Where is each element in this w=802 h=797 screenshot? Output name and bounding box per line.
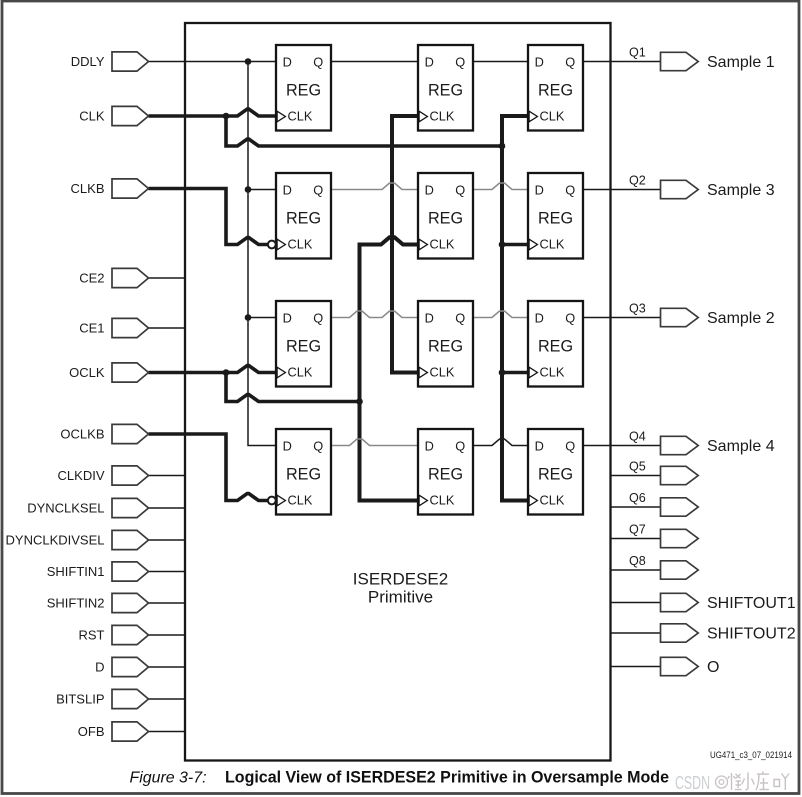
input pin DYNCLKSEL [27, 498, 148, 517]
svg-text:DYNCLKSEL: DYNCLKSEL [27, 501, 104, 516]
svg-text:Q: Q [565, 182, 575, 197]
inverter bubble row4 col1 CLK [268, 497, 276, 505]
input pin DYNCLKDIVSEL [6, 530, 149, 549]
svg-text:REG: REG [538, 81, 573, 99]
svg-text:OCLK: OCLK [69, 365, 105, 380]
wire CLK input with hop over DDLY vertical into row1 col1 CLK [149, 109, 277, 116]
svg-text:BITSLIP: BITSLIP [56, 692, 104, 707]
svg-text:D: D [283, 54, 292, 69]
watermark @guai-xiao-zhuang-ya [716, 772, 790, 791]
wire row4 col1 Q to col2 D with hop [331, 439, 418, 446]
svg-text:Q2: Q2 [629, 173, 646, 187]
svg-text:CLK: CLK [540, 365, 565, 380]
svg-text:Sample 1: Sample 1 [707, 54, 775, 71]
junction DDLY row1 D [245, 58, 252, 65]
svg-text:Primitive: Primitive [368, 588, 433, 607]
output pin SHIFTOUT2 [661, 624, 796, 643]
svg-text:CLK: CLK [430, 493, 455, 508]
svg-text:CLKDIV: CLKDIV [58, 468, 105, 483]
svg-text:D: D [535, 182, 544, 197]
svg-text:Q: Q [455, 438, 465, 453]
inverter bubble row2 col1 CLK [268, 241, 276, 249]
svg-text:Sample 2: Sample 2 [707, 310, 775, 327]
svg-text:UG471_c3_07_021914: UG471_c3_07_021914 [710, 749, 792, 760]
wire row3 col2 Q to col3 D with hop [473, 311, 528, 318]
svg-text:Q5: Q5 [629, 459, 646, 473]
ISERDESE2 primitive outline box [185, 23, 611, 761]
svg-text:SHIFTOUT2: SHIFTOUT2 [707, 626, 796, 643]
svg-text:Q: Q [313, 182, 323, 197]
wire row1 col3 Q out to Q1 pin [583, 61, 661, 63]
wire row3 col3 Q out to Q3 pin [583, 317, 661, 319]
label ISERDESE2 Primitive [353, 570, 448, 607]
svg-text:CSDN: CSDN [675, 773, 710, 793]
junction DDLY row2 D [245, 186, 252, 193]
svg-text:Q6: Q6 [629, 491, 646, 505]
svg-text:REG: REG [538, 209, 573, 227]
wire SHIFTOUT1 box edge to pin [610, 602, 661, 604]
flip-flop U22 REG (row 2, col 2) [418, 173, 473, 259]
output pin Q3 [629, 301, 775, 327]
svg-text:Q: Q [313, 438, 323, 453]
input pin CE2 [79, 268, 148, 287]
svg-text:Q7: Q7 [629, 522, 646, 536]
input pin CE1 [79, 318, 148, 337]
wire OFB pin to box edge [149, 731, 187, 733]
svg-text:REG: REG [286, 337, 321, 355]
flip-flop U11 REG (row 1, col 1) [276, 45, 331, 131]
svg-text:CLK: CLK [79, 109, 105, 124]
flip-flop U42 REG (row 4, col 2) [418, 429, 473, 515]
wire stub trunk502 to col3 row2 CLK [502, 243, 528, 247]
svg-text:DYNCLKDIVSEL: DYNCLKDIVSEL [6, 533, 105, 548]
input pin OFB [78, 722, 149, 741]
wire O box edge to pin [610, 666, 661, 668]
svg-text:REG: REG [428, 81, 463, 99]
wire BITSLIP pin to box edge [149, 698, 187, 700]
svg-text:REG: REG [286, 81, 321, 99]
flip-flop U41 REG (row 4, col 1) [276, 429, 331, 515]
svg-text:D: D [535, 310, 544, 325]
wire DYNCLKSEL pin to box edge [149, 507, 187, 509]
svg-text:REG: REG [538, 337, 573, 355]
junction OCLK to trunk x=359.5 [356, 398, 363, 405]
wire D pin to box edge [149, 666, 187, 668]
output pin Q7 [629, 522, 698, 547]
junction DDLY row3 D [245, 314, 252, 321]
wire CLKB down to inverted clock of row2 col1 [149, 189, 268, 245]
wire OCLK trunk x=359.5 feeding col2 row2 CLK (hop over x=392) and col2 row4 CLK [360, 237, 419, 500]
svg-text:Q8: Q8 [629, 554, 646, 568]
wire Q5 box edge to pin [610, 475, 661, 477]
svg-text:CLK: CLK [430, 237, 455, 252]
svg-text:D: D [425, 438, 434, 453]
svg-text:Sample 3: Sample 3 [707, 182, 775, 199]
svg-text:Logical View of ISERDESE2 Prim: Logical View of ISERDESE2 Primitive in O… [225, 769, 669, 787]
wire RST pin to box edge [149, 634, 187, 636]
wire row1 col2 Q to col3 D [473, 61, 528, 63]
wire OCLK with hop into row3 col1 CLK [149, 366, 277, 373]
svg-text:Q: Q [455, 182, 465, 197]
output pin Q6 [629, 491, 698, 516]
wire row2 col1 Q to col2 D with hop [331, 183, 418, 190]
svg-text:CLK: CLK [540, 109, 565, 124]
output pin Q8 [629, 554, 698, 579]
flip-flop U43 REG (row 4, col 3) [528, 429, 583, 515]
svg-text:RST: RST [79, 628, 105, 643]
svg-text:D: D [95, 660, 104, 675]
junction trunk502 row2 [499, 241, 506, 248]
wire stub to row3 D input [248, 317, 276, 319]
flip-flop U31 REG (row 3, col 1) [276, 301, 331, 387]
svg-text:Sample 4: Sample 4 [707, 438, 775, 455]
svg-text:OCLKB: OCLKB [60, 427, 104, 442]
wire DYNCLKDIVSEL pin to box edge [149, 539, 187, 541]
wire SHIFTOUT2 box edge to pin [610, 632, 661, 634]
svg-text:D: D [425, 182, 434, 197]
input pin SHIFTIN1 [47, 562, 149, 581]
svg-text:ISERDESE2: ISERDESE2 [353, 570, 448, 589]
flip-flop U21 REG (row 2, col 1) [276, 173, 331, 259]
junction OCLK branch [223, 369, 230, 376]
wire CLKDIV pin to box edge [149, 475, 187, 477]
svg-text:DDLY: DDLY [71, 54, 105, 69]
wire CLK branch down and right at y=146 to trunk x=502 [226, 116, 502, 146]
svg-text:D: D [283, 438, 292, 453]
svg-text:Q: Q [313, 54, 323, 69]
svg-text:O: O [707, 659, 719, 676]
svg-text:CLK: CLK [288, 365, 313, 380]
svg-text:D: D [425, 54, 434, 69]
svg-text:REG: REG [428, 337, 463, 355]
wire CE2 pin to box edge [149, 277, 187, 279]
svg-text:REG: REG [428, 465, 463, 483]
svg-text:SHIFTIN1: SHIFTIN1 [47, 564, 105, 579]
svg-text:Figure 3-7:: Figure 3-7: [130, 770, 207, 787]
input pin SHIFTIN2 [47, 593, 149, 612]
svg-text:CLK: CLK [540, 493, 565, 508]
flip-flop U13 REG (row 1, col 3) [528, 45, 583, 131]
svg-text:REG: REG [428, 209, 463, 227]
svg-text:Q: Q [455, 54, 465, 69]
svg-text:REG: REG [286, 209, 321, 227]
flip-flop U12 REG (row 1, col 2) [418, 45, 473, 131]
svg-text:Q: Q [313, 310, 323, 325]
wire DDLY vertical distribution x=248 down to row4 D [248, 62, 276, 446]
input pin OCLK [69, 363, 148, 382]
svg-text:D: D [283, 182, 292, 197]
svg-text:REG: REG [286, 465, 321, 483]
wire stub trunk502 to col3 row3 CLK [502, 371, 528, 375]
svg-text:CE1: CE1 [79, 321, 104, 336]
wire OCLK branch down to y=401.5 across to trunk x=359.5 [226, 373, 360, 402]
svg-text:OFB: OFB [78, 724, 105, 739]
wire CLK trunk x=502 feeding col3 row1 and row4 CLK [502, 116, 528, 501]
wire Q7 box edge to pin [610, 538, 661, 540]
output pin Q1 [629, 45, 775, 71]
svg-text:Q4: Q4 [629, 429, 646, 443]
caption Figure 3-7 [130, 769, 670, 787]
svg-text:Q3: Q3 [629, 301, 646, 315]
wire DDLY to row1 D input [149, 61, 277, 63]
svg-text:CLK: CLK [288, 493, 313, 508]
junction CLK branch [223, 113, 230, 120]
input pin BITSLIP [56, 689, 148, 708]
svg-text:Q1: Q1 [629, 45, 646, 59]
svg-text:D: D [283, 310, 292, 325]
input pin CLKDIV [58, 466, 149, 485]
svg-text:Q: Q [565, 438, 575, 453]
svg-text:CE2: CE2 [79, 271, 104, 286]
wire row2 col2 Q to col3 D with hop [473, 183, 528, 190]
flip-flop U32 REG (row 3, col 2) [418, 301, 473, 387]
svg-text:CLK: CLK [288, 109, 313, 124]
svg-text:CLK: CLK [430, 109, 455, 124]
wire Q6 box edge to pin [610, 506, 661, 508]
svg-text:REG: REG [538, 465, 573, 483]
svg-text:SHIFTOUT1: SHIFTOUT1 [707, 595, 796, 612]
wire row4 col3 Q out to Q4 pin [583, 445, 661, 447]
svg-text:D: D [425, 310, 434, 325]
junction trunk502 row3 [499, 369, 506, 376]
svg-text:D: D [535, 54, 544, 69]
input pin CLKB [71, 179, 149, 198]
wire stub to row2 D input [248, 189, 276, 191]
input pin DDLY [71, 52, 149, 71]
output pin SHIFTOUT1 [661, 593, 796, 612]
wire SHIFTIN1 pin to box edge [149, 571, 187, 573]
svg-text:CLK: CLK [430, 365, 455, 380]
wire row4 col2 Q to col3 D with hop [473, 439, 528, 446]
wire Q8 box edge to pin [610, 569, 661, 571]
wire CLK trunk x=392 feeding col2 row1 and row3 CLK [392, 116, 418, 373]
svg-text:CLKB: CLKB [71, 181, 105, 196]
wire OCLKB down to inverted clock of row4 col1 [149, 434, 268, 501]
input pin D [95, 657, 148, 676]
wire SHIFTIN2 pin to box edge [149, 602, 187, 604]
wire row1 col1 Q to col2 D [331, 61, 418, 63]
output pin Q2 [629, 173, 775, 199]
junction CLK line to trunk x=502 [499, 143, 506, 150]
svg-text:Q: Q [455, 310, 465, 325]
input pin CLK [79, 106, 148, 125]
input pin RST [79, 625, 149, 644]
output pin Q5 [629, 459, 698, 484]
flip-flop U33 REG (row 3, col 3) [528, 301, 583, 387]
svg-text:CLK: CLK [540, 237, 565, 252]
svg-text:Q: Q [565, 310, 575, 325]
svg-text:Q: Q [565, 54, 575, 69]
svg-text:CLK: CLK [288, 237, 313, 252]
input pin OCLKB [60, 424, 148, 443]
wire row3 col1 Q to col2 D with hops [331, 311, 418, 318]
svg-text:SHIFTIN2: SHIFTIN2 [47, 596, 105, 611]
flip-flop U23 REG (row 2, col 3) [528, 173, 583, 259]
output pin Q4 [629, 429, 775, 455]
wire CE1 pin to box edge [149, 327, 187, 329]
output pin O [661, 657, 720, 676]
wire row2 col3 Q out to Q2 pin [583, 189, 661, 191]
svg-text:D: D [535, 438, 544, 453]
